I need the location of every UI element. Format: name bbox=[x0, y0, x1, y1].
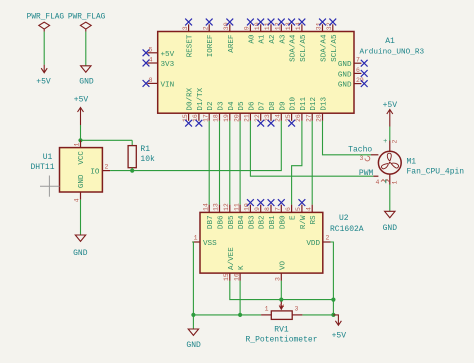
svg-text:18: 18 bbox=[213, 114, 220, 122]
svg-text:15: 15 bbox=[223, 273, 230, 281]
svg-text:D10: D10 bbox=[290, 96, 298, 110]
wire Tacho net A1 D13 to fan bbox=[323, 121, 372, 155]
wire U1 GND down bbox=[80, 200, 82, 235]
pin 15 D0/RX of A1 (bottom) bbox=[182, 87, 195, 126]
pin 5 +5V of A1 bbox=[143, 46, 175, 59]
pin 3 RESET of A1 (top) bbox=[182, 19, 195, 58]
svg-text:28: 28 bbox=[316, 114, 323, 122]
wire fan - to GND bbox=[389, 185, 391, 212]
svg-text:AREF: AREF bbox=[228, 34, 236, 53]
pin 2 VDD of U2 bbox=[306, 235, 330, 249]
wire U2 VSS to ground rail bbox=[192, 242, 193, 315]
wire IO net U1 to A1 D9 bbox=[110, 121, 281, 171]
pin 3 VO of U2 (bottom) bbox=[275, 260, 288, 281]
svg-text:GND: GND bbox=[338, 82, 352, 90]
wire A1 D3 to LCD DB6 bbox=[219, 121, 221, 205]
svg-text:6: 6 bbox=[285, 207, 292, 211]
svg-text:25: 25 bbox=[285, 114, 292, 122]
svg-text:VCC: VCC bbox=[78, 151, 86, 165]
svg-text:PWR_FLAG: PWR_FLAG bbox=[68, 14, 106, 22]
svg-text:16: 16 bbox=[192, 114, 199, 122]
svg-text:Fan_CPU_4pin: Fan_CPU_4pin bbox=[407, 168, 465, 177]
svg-text:19: 19 bbox=[223, 114, 230, 122]
svg-text:11: 11 bbox=[233, 203, 240, 211]
svg-text:IO: IO bbox=[90, 169, 100, 177]
wire U2 A/VEE to +5V branch bbox=[230, 281, 334, 300]
svg-text:DB7: DB7 bbox=[207, 215, 215, 229]
pin 10 DB3 of U2 (top) bbox=[244, 199, 257, 229]
pin 11 A2 of A1 (top) bbox=[264, 19, 277, 44]
svg-text:K: K bbox=[238, 265, 246, 270]
pin 8 DB1 of U2 (top) bbox=[264, 199, 277, 229]
svg-text:GND: GND bbox=[338, 71, 352, 79]
svg-text:3: 3 bbox=[295, 306, 299, 313]
pin 27 D12 of A1 (bottom) bbox=[305, 96, 318, 122]
svg-text:1: 1 bbox=[194, 235, 198, 242]
svg-text:SCL/A5: SCL/A5 bbox=[300, 34, 308, 62]
svg-text:4: 4 bbox=[305, 207, 312, 211]
power symbol +5V above fan bbox=[383, 101, 398, 127]
pin 28 D13 of A1 (bottom) bbox=[316, 96, 329, 122]
power symbol +5V above U1 bbox=[74, 96, 89, 126]
pin 3 Tacho of M1 bbox=[360, 155, 379, 162]
svg-text:24: 24 bbox=[275, 114, 282, 122]
svg-text:D12: D12 bbox=[310, 96, 318, 110]
svg-text:DB3: DB3 bbox=[248, 215, 256, 229]
pin 20 D5 of A1 (bottom) bbox=[233, 101, 246, 122]
svg-text:GND: GND bbox=[78, 174, 86, 188]
resistor R1 10k bbox=[128, 145, 155, 168]
junction at U1 VCC / R1 branch bbox=[78, 138, 82, 142]
pin 4 GND of U1 bbox=[74, 174, 87, 202]
svg-text:M1: M1 bbox=[407, 158, 417, 167]
svg-text:Arduino_UNO_R3: Arduino_UNO_R3 bbox=[360, 49, 425, 57]
svg-text:IOREF: IOREF bbox=[207, 34, 215, 57]
pin 9 A0 of A1 (top) bbox=[244, 19, 257, 44]
wire A1 D11 to LCD E bbox=[292, 121, 302, 205]
svg-text:A1: A1 bbox=[259, 34, 267, 44]
svg-text:7: 7 bbox=[275, 207, 282, 211]
svg-text:U2: U2 bbox=[339, 214, 349, 223]
svg-text:16: 16 bbox=[233, 273, 240, 281]
net label PWM bbox=[359, 169, 374, 178]
ground symbol bottom-left bbox=[186, 329, 201, 350]
svg-text:2: 2 bbox=[105, 164, 109, 171]
svg-text:DB5: DB5 bbox=[228, 215, 236, 229]
pin 15 A/VEE of U2 (bottom) bbox=[223, 247, 236, 281]
svg-text:D11: D11 bbox=[300, 96, 308, 110]
svg-text:VSS: VSS bbox=[203, 240, 217, 248]
svg-text:A3: A3 bbox=[279, 34, 287, 44]
svg-text:R/W: R/W bbox=[300, 215, 308, 229]
pin 1 VSS of U2 bbox=[192, 235, 217, 249]
pin 4 PWM of M1 bbox=[373, 176, 389, 186]
svg-text:D0/RX: D0/RX bbox=[187, 87, 195, 110]
pin 7 DB0 of U2 (top) bbox=[275, 199, 288, 229]
svg-text:DB4: DB4 bbox=[238, 215, 246, 229]
pin 12 A3 of A1 (top) bbox=[275, 19, 288, 44]
svg-text:RESET: RESET bbox=[187, 34, 195, 57]
pin 4 3V3 of A1 bbox=[143, 57, 175, 70]
svg-text:13: 13 bbox=[213, 203, 220, 211]
pin 2 wiper of RV1 bbox=[279, 302, 286, 311]
svg-text:3V3: 3V3 bbox=[161, 61, 175, 69]
svg-text:D3: D3 bbox=[218, 101, 226, 111]
svg-text:27: 27 bbox=[305, 114, 312, 122]
svg-text:9: 9 bbox=[244, 26, 251, 30]
wire PF2 to GND bbox=[85, 32, 87, 66]
svg-text:DB2: DB2 bbox=[259, 215, 267, 229]
svg-text:VIN: VIN bbox=[161, 81, 175, 89]
svg-text:17: 17 bbox=[202, 114, 209, 122]
svg-text:D4: D4 bbox=[228, 101, 236, 111]
svg-text:2: 2 bbox=[326, 235, 330, 242]
svg-text:GND: GND bbox=[73, 249, 88, 258]
pin 32 SCL/A5 of A1 (top) bbox=[326, 19, 339, 62]
power flag PF1 on +5V bbox=[27, 14, 65, 32]
wire R1 bottom to IO net bbox=[131, 168, 133, 171]
svg-text:3: 3 bbox=[360, 155, 364, 162]
svg-text:1: 1 bbox=[392, 181, 399, 185]
wire rail to GND symbol bbox=[192, 315, 194, 329]
svg-text:DB0: DB0 bbox=[279, 215, 287, 229]
ground symbol top-left bbox=[79, 66, 94, 87]
svg-text:GND: GND bbox=[186, 341, 201, 350]
svg-text:R_Potentiometer: R_Potentiometer bbox=[245, 336, 317, 345]
pin 6 E of U2 (top) bbox=[285, 205, 298, 220]
wire U2 VDD to +5V column bbox=[331, 242, 334, 315]
svg-text:D5: D5 bbox=[238, 101, 246, 111]
svg-text:20: 20 bbox=[233, 114, 240, 122]
pin 12 DB5 of U2 (top) bbox=[223, 203, 236, 229]
pin 11 DB4 of U2 (top) bbox=[233, 203, 246, 229]
pin 1 + of M1 bbox=[383, 138, 398, 151]
gray NC cross on U1 bbox=[40, 176, 60, 197]
junction VSS/rail bbox=[191, 313, 195, 317]
svg-text:Tacho: Tacho bbox=[348, 145, 372, 154]
pin 22 D7 of A1 (bottom) bbox=[254, 101, 267, 126]
svg-text:VDD: VDD bbox=[306, 240, 320, 248]
pin 29 GND of A1 bbox=[338, 77, 368, 90]
ground symbol below U1 bbox=[73, 235, 88, 258]
pin 18 D3 of A1 (bottom) bbox=[213, 101, 226, 122]
junction K/rail bbox=[238, 313, 242, 317]
pin 16 K of U2 (bottom) bbox=[233, 265, 246, 281]
svg-text:2: 2 bbox=[202, 26, 209, 30]
pin 31 SDA/A4 of A1 (top) bbox=[316, 19, 329, 62]
wire +5V branch to R1 top bbox=[81, 140, 133, 145]
lcd module U2 RC1602A body bbox=[200, 212, 364, 273]
wire U2 VO to pot wiper bbox=[280, 281, 282, 302]
svg-text:4: 4 bbox=[376, 179, 380, 186]
svg-text:D13: D13 bbox=[321, 96, 329, 110]
svg-text:PWR_FLAG: PWR_FLAG bbox=[27, 14, 65, 22]
wire ground rail to pot pin1 bbox=[193, 314, 261, 316]
svg-text:6: 6 bbox=[356, 67, 360, 74]
pin 24 D9 of A1 (bottom) bbox=[275, 101, 288, 122]
svg-text:10k: 10k bbox=[140, 155, 155, 164]
svg-text:D8: D8 bbox=[269, 101, 277, 111]
svg-text:14: 14 bbox=[202, 203, 209, 211]
svg-text:R1: R1 bbox=[140, 145, 150, 154]
svg-text:+5V: +5V bbox=[332, 332, 347, 341]
svg-text:D7: D7 bbox=[259, 101, 267, 110]
junction VDD/A_VEE column bbox=[331, 298, 335, 302]
pin 23 D8 of A1 (bottom) bbox=[264, 101, 277, 127]
svg-text:GND: GND bbox=[79, 77, 94, 86]
fan M1 Fan_CPU_4pin bbox=[378, 151, 464, 176]
svg-text:E: E bbox=[290, 215, 298, 220]
svg-text:2: 2 bbox=[279, 304, 286, 308]
pin 13 DB6 of U2 (top) bbox=[213, 203, 226, 229]
wire A1 D2 to LCD DB7 bbox=[208, 121, 210, 205]
wire +5V to U1 VCC bbox=[80, 125, 82, 148]
pin 14 SCL/A5 of A1 (top) bbox=[295, 19, 308, 62]
svg-text:DHT11: DHT11 bbox=[30, 163, 54, 172]
svg-text:2: 2 bbox=[392, 140, 399, 144]
pin 14 DB7 of U2 (top) bbox=[202, 203, 215, 229]
svg-text:RS: RS bbox=[310, 215, 318, 225]
pin 9 DB2 of U2 (top) bbox=[254, 199, 267, 229]
ground symbol below fan bbox=[383, 211, 398, 233]
svg-text:9: 9 bbox=[254, 207, 261, 211]
svg-text:12: 12 bbox=[223, 203, 230, 211]
svg-text:SCL/A5: SCL/A5 bbox=[331, 34, 339, 62]
svg-text:21: 21 bbox=[244, 114, 251, 122]
junction VO/A_VEE bbox=[279, 298, 283, 302]
wire PF1 to +5V bbox=[43, 32, 45, 65]
pin 19 D4 of A1 (bottom) bbox=[223, 101, 236, 122]
sensor U1 DHT11 body bbox=[30, 148, 102, 192]
svg-text:1: 1 bbox=[74, 143, 81, 147]
svg-text:22: 22 bbox=[254, 114, 261, 122]
pin 2 - of M1 bbox=[386, 174, 399, 184]
svg-text:7: 7 bbox=[356, 57, 360, 64]
svg-text:GND: GND bbox=[383, 224, 398, 233]
svg-text:DB1: DB1 bbox=[269, 215, 277, 229]
potentiometer RV1 R_Potentiometer bbox=[245, 306, 317, 345]
wire +5V to fan + bbox=[389, 127, 391, 141]
pin 5 R/W of U2 (top) bbox=[295, 199, 308, 229]
pin 4 RS of U2 (top) bbox=[305, 205, 318, 225]
svg-text:PWM: PWM bbox=[359, 169, 374, 178]
pin 2 IOREF of A1 (top) bbox=[202, 19, 215, 58]
svg-text:SDA/A4: SDA/A4 bbox=[290, 34, 298, 62]
svg-text:+: + bbox=[383, 138, 387, 146]
wire A1 D12 to LCD RS bbox=[311, 121, 313, 205]
net label Tacho bbox=[348, 145, 372, 154]
svg-text:A/VEE: A/VEE bbox=[228, 247, 236, 270]
svg-text:RC1602A: RC1602A bbox=[330, 225, 364, 234]
pin 25 D10 of A1 (bottom) bbox=[285, 96, 298, 126]
svg-text:A2: A2 bbox=[269, 34, 277, 44]
svg-text:8: 8 bbox=[264, 207, 271, 211]
svg-text:D9: D9 bbox=[279, 101, 287, 111]
junction R1/IO bbox=[130, 169, 134, 173]
svg-text:15: 15 bbox=[182, 114, 189, 122]
svg-text:D1/TX: D1/TX bbox=[197, 87, 205, 110]
wire pot pin3 to +5V column bbox=[302, 314, 333, 316]
svg-text:5: 5 bbox=[295, 207, 302, 211]
pin 1 VCC of U1 bbox=[74, 140, 87, 164]
svg-text:23: 23 bbox=[264, 114, 271, 122]
pin 17 D2 of A1 (bottom) bbox=[202, 101, 215, 122]
wire PWM net A1 D6 to fan bbox=[250, 121, 373, 176]
pin 10 A1 of A1 (top) bbox=[254, 19, 267, 44]
arduino module A1 body bbox=[158, 32, 425, 114]
pin 21 D6 of A1 (bottom) bbox=[244, 101, 257, 122]
wire U2 K to rail bbox=[239, 281, 241, 315]
svg-text:A0: A0 bbox=[248, 34, 256, 44]
svg-text:29: 29 bbox=[356, 77, 364, 84]
svg-text:1: 1 bbox=[265, 306, 269, 313]
svg-text:GND: GND bbox=[338, 61, 352, 69]
svg-text:DB6: DB6 bbox=[218, 215, 226, 229]
svg-text:VO: VO bbox=[279, 260, 287, 270]
svg-text:SDA/A4: SDA/A4 bbox=[321, 34, 329, 62]
power symbol +5V bottom-right bbox=[332, 315, 347, 341]
pin 7 GND of A1 bbox=[338, 57, 368, 69]
svg-text:D2: D2 bbox=[207, 101, 215, 111]
pin 8 VIN of A1 bbox=[143, 77, 175, 90]
svg-text:4: 4 bbox=[74, 198, 81, 202]
pin 6 GND of A1 bbox=[338, 67, 368, 80]
pin 2 IO of U1 bbox=[90, 164, 110, 177]
svg-text:U1: U1 bbox=[43, 153, 53, 162]
svg-text:D6: D6 bbox=[248, 101, 256, 111]
svg-text:3: 3 bbox=[275, 277, 282, 281]
power flag PF2 on GND bbox=[68, 14, 106, 32]
svg-text:26: 26 bbox=[295, 114, 302, 122]
pin 30 AREF of A1 (top) bbox=[223, 19, 236, 53]
wire A1 D4 to LCD DB5 bbox=[229, 121, 231, 205]
pin 13 SDA/A4 of A1 (top) bbox=[285, 19, 298, 62]
wire A1 D5 to LCD DB4 bbox=[239, 121, 241, 205]
svg-text:A1: A1 bbox=[385, 37, 395, 46]
junction +5V column/rail bbox=[331, 313, 335, 317]
svg-text:+5V: +5V bbox=[383, 101, 398, 110]
pin 26 D11 of A1 (bottom) bbox=[295, 96, 308, 122]
pin 16 D1/TX of A1 (bottom) bbox=[192, 87, 205, 126]
power symbol +5V top-left bbox=[36, 65, 51, 87]
svg-text:+5V: +5V bbox=[161, 51, 175, 59]
svg-text:RV1: RV1 bbox=[274, 326, 289, 335]
svg-text:+5V: +5V bbox=[36, 77, 51, 86]
svg-text:+5V: +5V bbox=[74, 96, 89, 105]
svg-text:3: 3 bbox=[182, 26, 189, 30]
